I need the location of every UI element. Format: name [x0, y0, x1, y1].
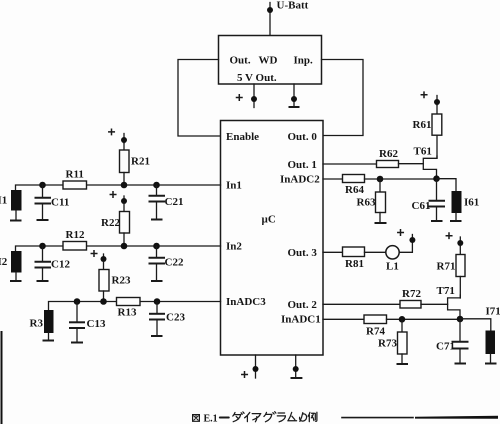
wire InADC1 to R74 [323, 318, 364, 320]
glyph mu [288, 412, 297, 420]
wire R74 to C71 node [387, 318, 461, 320]
transistor T71 [448, 295, 461, 319]
glyph a [252, 414, 261, 422]
node junction C12 [39, 243, 46, 250]
resistor R73 [398, 319, 408, 364]
voltage regulator / watchdog box U2 [219, 36, 322, 85]
svg-text:R64: R64 [345, 184, 364, 196]
current source I2 [11, 251, 22, 273]
svg-text:R23: R23 [112, 275, 131, 287]
node junction C21 [153, 182, 160, 189]
node junction R63 [377, 176, 384, 183]
resistor R12 [63, 242, 87, 251]
svg-text:R3: R3 [30, 318, 44, 330]
node junction R73 [399, 316, 406, 323]
+ terminal above R22 [110, 192, 127, 204]
wire Out. 2 to R72 [323, 303, 400, 305]
svg-text:5 V Out.: 5 V Out. [237, 72, 277, 84]
wire Out. 3 to R81 [323, 251, 343, 253]
svg-text:R72: R72 [402, 288, 421, 300]
resistor R74 [364, 315, 387, 324]
svg-text:InADC3: InADC3 [226, 296, 266, 308]
svg-text:I71: I71 [486, 306, 500, 318]
wire to I71 [460, 319, 491, 331]
svg-text:R71: R71 [437, 261, 456, 273]
node U-Batt terminal [267, 3, 273, 36]
wire Out. 1 to R62 [323, 163, 377, 165]
svg-text:C23: C23 [166, 312, 185, 324]
+ supply terminal under microcontroller [242, 355, 259, 378]
capacitor C23 [150, 302, 164, 337]
svg-text:I61: I61 [464, 197, 479, 209]
glyph i [245, 412, 250, 421]
glyph rei [308, 412, 317, 421]
glyph ra [277, 413, 285, 422]
capacitor C11 [36, 185, 51, 220]
svg-text:C22: C22 [165, 257, 184, 269]
node junction C23 [154, 298, 161, 305]
svg-text:µC: µC [262, 214, 276, 226]
svg-text:R62: R62 [379, 148, 398, 160]
svg-text:R13: R13 [118, 307, 137, 319]
+ supply terminal under regulator [237, 84, 258, 108]
wire InADC2 to R64 [323, 178, 343, 180]
node junction R21/In1 [121, 182, 128, 189]
ground under I1 [11, 211, 21, 221]
lamp L1 [386, 246, 399, 259]
svg-text:T61: T61 [414, 146, 432, 158]
svg-text:E.1: E.1 [204, 413, 218, 424]
svg-text:R63: R63 [357, 197, 376, 209]
ground under I2 [11, 273, 21, 282]
+ terminal above L1 [398, 230, 416, 243]
resistor R62 [377, 161, 399, 168]
resistor R63 [376, 179, 386, 223]
wire In1 line [16, 185, 221, 190]
svg-text:Out. 1: Out. 1 [288, 159, 317, 171]
svg-text:WD: WD [259, 55, 278, 67]
ground under R3 [44, 333, 54, 341]
wire R81 to L1 [365, 251, 386, 253]
caption 図 E.1 - diagram example [193, 412, 317, 424]
svg-text:I2: I2 [0, 256, 8, 268]
svg-text:Out. 2: Out. 2 [288, 299, 318, 311]
capacitor C61 [430, 179, 445, 221]
+ terminal above R61 [421, 92, 440, 105]
wire R62 to T61 base [399, 163, 424, 165]
resistor R64 [343, 175, 365, 183]
resistor R71 [456, 246, 465, 298]
glyph gu [264, 412, 276, 422]
resistor R11 [63, 181, 87, 189]
current source I1 [11, 190, 22, 211]
svg-text:R81: R81 [345, 258, 364, 270]
glyph no [300, 413, 307, 422]
svg-text:C11: C11 [51, 197, 69, 209]
node junction T61 emitter / C61 [433, 175, 440, 182]
lamp I71 [486, 331, 496, 355]
svg-text:Out.: Out. [230, 55, 251, 67]
resistor R21 [120, 143, 130, 185]
svg-text:I1: I1 [0, 195, 7, 207]
scan artifact left edge line [1, 331, 3, 424]
svg-text:C13: C13 [87, 318, 106, 330]
capacitor C13 [70, 302, 84, 343]
resistor R61 [432, 105, 442, 158]
svg-text:C71: C71 [436, 341, 455, 353]
wire regulator Inp. to Out. 0 [322, 60, 364, 136]
svg-text:Out. 0: Out. 0 [288, 131, 318, 143]
wire L1 to + terminal [399, 240, 412, 252]
svg-text:Inp.: Inp. [294, 55, 314, 67]
resistor R3 (sensor) [44, 310, 54, 333]
ground terminal under microcontroller [292, 355, 302, 378]
node junction T71 emitter / C71 [457, 316, 464, 323]
+ terminal above R71 [446, 233, 463, 246]
node junction C11 [39, 182, 46, 189]
svg-text:R74: R74 [366, 326, 385, 338]
microcontroller U1 box [221, 121, 324, 356]
resistor R13 [117, 298, 141, 306]
scan artifact bottom right rule [342, 416, 498, 419]
wire regulator Out. to Enable [178, 60, 221, 137]
svg-text:R73: R73 [378, 338, 397, 350]
svg-text:C61: C61 [412, 200, 431, 212]
svg-text:C21: C21 [165, 196, 184, 208]
node junction C13 [74, 298, 81, 305]
capacitor C22 [150, 246, 165, 281]
svg-text:U-Batt: U-Batt [277, 0, 309, 12]
capacitor C71 [453, 319, 468, 364]
ground under I71 [486, 354, 496, 364]
resistor R81 [343, 247, 365, 257]
wire InADC3 line [49, 302, 221, 311]
node junction R22/In2 [121, 243, 128, 250]
dash [220, 417, 229, 419]
svg-text:R61: R61 [413, 119, 432, 131]
wire R72 to T71 base [421, 303, 448, 305]
ground terminal under regulator [290, 84, 299, 107]
wire R64 to C61 node [365, 178, 437, 180]
svg-text:InADC1: InADC1 [281, 314, 321, 326]
node junction C22 [153, 243, 160, 250]
ground under I61 [451, 213, 461, 221]
transistor T61 [423, 156, 437, 179]
svg-text:In1: In1 [226, 180, 242, 192]
wire In2 line [16, 246, 221, 251]
glyph da [233, 412, 244, 422]
svg-text:R22: R22 [101, 217, 120, 229]
svg-text:InADC2: InADC2 [280, 174, 320, 186]
resistor R72 [400, 301, 421, 309]
svg-text:Enable: Enable [226, 131, 259, 143]
svg-text:C12: C12 [51, 259, 70, 271]
resistor R23 [99, 261, 109, 302]
svg-text:R11: R11 [66, 169, 84, 181]
svg-text:L1: L1 [386, 261, 399, 273]
lamp I61 [452, 191, 462, 213]
node junction R23/InADC3 [100, 298, 107, 305]
+ terminal above R21 [109, 129, 127, 143]
svg-text:R21: R21 [131, 156, 150, 168]
capacitor C12 [36, 246, 51, 281]
svg-text:R12: R12 [66, 229, 85, 241]
wire to I61 [437, 179, 457, 191]
svg-text:Out. 3: Out. 3 [288, 247, 318, 259]
svg-text:In2: In2 [226, 241, 242, 253]
capacitor C21 [150, 185, 165, 220]
resistor R22 [120, 203, 130, 246]
glyph 図 [193, 415, 200, 422]
svg-text:T71: T71 [437, 285, 455, 297]
+ terminal above R23 [91, 251, 106, 262]
